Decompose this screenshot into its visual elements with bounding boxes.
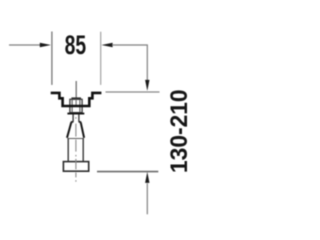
- centerline dash in cone: [75, 124, 77, 137]
- centerline dash in cylinder: [75, 140, 77, 152]
- cone right side: [81, 122, 84, 138]
- cylinder left wall: [67, 139, 69, 162]
- svg-text:130-210: 130-210: [166, 89, 193, 173]
- centerline dot in cylinder: [75, 155, 77, 157]
- dimension 130-210: bottom leader line: [146, 183, 148, 214]
- centerline dot below plate: [75, 180, 77, 182]
- collar flange under nut: [67, 113, 84, 115]
- dimension 130-210: bottom extension line: [97, 171, 158, 173]
- seam cone/cylinder: [67, 138, 84, 140]
- dimension 85: right arrowhead: [101, 43, 112, 48]
- spindle top cap: [71, 97, 81, 99]
- dimension 130-210: top extension line: [106, 91, 160, 93]
- centerline dot in neck: [75, 117, 77, 119]
- dimension 85: left arrowhead: [40, 43, 51, 48]
- dimension 85: left extension line: [51, 32, 53, 85]
- svg-text:85: 85: [65, 30, 87, 60]
- tray rib profile (hat section): [51, 93, 102, 106]
- centerline dash below plate: [75, 173, 77, 178]
- cone top shoulder left: [71, 121, 74, 123]
- centerline dash across plate: [75, 159, 77, 170]
- cone left side: [67, 122, 71, 138]
- dimension 130-210: top arrowhead (down): [145, 80, 149, 91]
- nut body: [70, 99, 82, 112]
- nut facet line right: [79, 99, 81, 112]
- cone top shoulder right: [79, 121, 82, 123]
- cylinder right wall: [82, 139, 84, 162]
- rod shadow inside nut: [75, 99, 77, 105]
- dimension 130-210: bottom arrowhead (up): [145, 172, 149, 183]
- nut facet line left: [71, 99, 73, 112]
- dimension 85: right leader to corner: [112, 45, 147, 81]
- base plate: [63, 162, 88, 172]
- dimension 85: left leader line: [9, 44, 41, 46]
- neck left wall: [72, 115, 74, 122]
- threaded rod above nut: [75, 81, 77, 98]
- dimension 85: right extension line: [100, 32, 102, 85]
- neck right wall: [78, 115, 80, 122]
